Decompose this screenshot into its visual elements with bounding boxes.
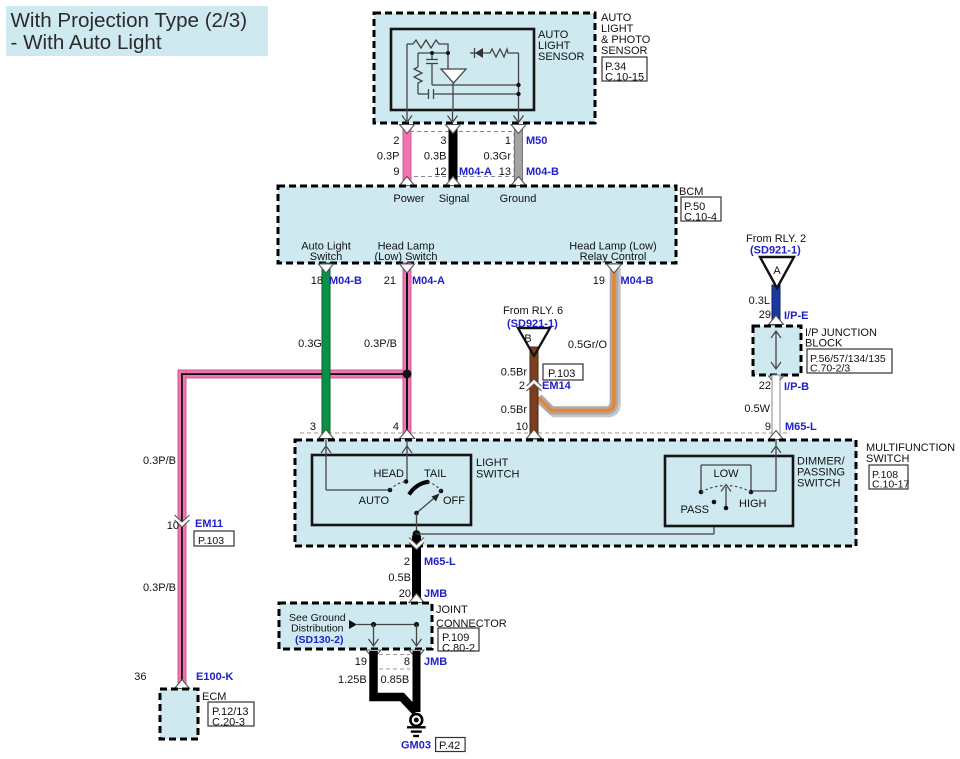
svg-text:SWITCH: SWITCH bbox=[866, 453, 909, 465]
svg-text:19: 19 bbox=[355, 656, 367, 668]
svg-text:- With Auto Light: - With Auto Light bbox=[11, 31, 162, 54]
svg-text:C.20-3: C.20-3 bbox=[212, 716, 245, 728]
svg-text:M04-B: M04-B bbox=[621, 275, 654, 287]
svg-text:HEAD: HEAD bbox=[373, 468, 404, 480]
svg-text:Distribution: Distribution bbox=[291, 623, 344, 635]
svg-text:C.80-2: C.80-2 bbox=[442, 642, 475, 654]
svg-text:B: B bbox=[524, 333, 531, 345]
svg-text:0.3P/B: 0.3P/B bbox=[143, 582, 176, 594]
svg-text:10: 10 bbox=[167, 520, 179, 532]
svg-text:BCM: BCM bbox=[679, 186, 703, 198]
svg-text:I/P-B: I/P-B bbox=[784, 381, 809, 393]
svg-text:0.3L: 0.3L bbox=[749, 295, 770, 307]
svg-text:HIGH: HIGH bbox=[739, 498, 767, 510]
svg-text:1.25B: 1.25B bbox=[338, 674, 367, 686]
svg-text:P.42: P.42 bbox=[439, 740, 460, 752]
svg-text:Ground: Ground bbox=[500, 193, 537, 205]
svg-text:M04-B: M04-B bbox=[329, 275, 362, 287]
svg-text:13: 13 bbox=[499, 166, 511, 178]
svg-text:SENSOR: SENSOR bbox=[601, 45, 648, 57]
svg-text:3: 3 bbox=[310, 421, 316, 433]
svg-text:E100-K: E100-K bbox=[196, 671, 233, 683]
svg-text:M04-A: M04-A bbox=[459, 166, 492, 178]
svg-text:C.10-4: C.10-4 bbox=[684, 211, 717, 223]
svg-text:M50: M50 bbox=[526, 135, 547, 147]
svg-text:JMB: JMB bbox=[424, 656, 447, 668]
svg-text:2: 2 bbox=[404, 556, 410, 568]
svg-text:From RLY. 6: From RLY. 6 bbox=[503, 305, 563, 317]
svg-text:0.3B: 0.3B bbox=[424, 151, 447, 163]
svg-text:LOW: LOW bbox=[713, 468, 739, 480]
svg-text:19: 19 bbox=[593, 275, 605, 287]
svg-text:3: 3 bbox=[440, 135, 446, 147]
svg-text:C.10-15: C.10-15 bbox=[605, 71, 644, 83]
svg-text:M65-L: M65-L bbox=[785, 421, 817, 433]
svg-text:I/P-E: I/P-E bbox=[784, 310, 808, 322]
svg-text:1: 1 bbox=[505, 135, 511, 147]
svg-text:0.85B: 0.85B bbox=[381, 674, 410, 686]
svg-text:SWITCH: SWITCH bbox=[476, 469, 519, 481]
svg-text:10: 10 bbox=[516, 421, 528, 433]
svg-text:9: 9 bbox=[765, 421, 771, 433]
svg-text:0.5B: 0.5B bbox=[388, 572, 411, 584]
svg-text:Signal: Signal bbox=[439, 193, 470, 205]
svg-text:0.3P/B: 0.3P/B bbox=[364, 338, 397, 350]
svg-text:9: 9 bbox=[393, 166, 399, 178]
svg-text:From RLY. 2: From RLY. 2 bbox=[746, 233, 806, 245]
svg-text:AUTO: AUTO bbox=[359, 495, 390, 507]
svg-text:C.10-17: C.10-17 bbox=[872, 479, 910, 491]
svg-text:0.5Br: 0.5Br bbox=[501, 367, 528, 379]
svg-text:22: 22 bbox=[759, 380, 771, 392]
svg-text:JMB: JMB bbox=[424, 588, 447, 600]
svg-text:Relay Control: Relay Control bbox=[580, 251, 647, 263]
svg-text:P.103: P.103 bbox=[198, 535, 224, 547]
svg-text:0.3Gr: 0.3Gr bbox=[483, 151, 511, 163]
svg-text:With Projection Type (2/3): With Projection Type (2/3) bbox=[11, 9, 248, 32]
svg-text:0.3G: 0.3G bbox=[298, 338, 322, 350]
svg-text:2: 2 bbox=[519, 380, 525, 392]
svg-text:SWITCH: SWITCH bbox=[797, 478, 840, 490]
svg-text:M65-L: M65-L bbox=[424, 556, 456, 568]
svg-text:GM03: GM03 bbox=[401, 740, 431, 752]
svg-text:0.5Br: 0.5Br bbox=[501, 404, 528, 416]
svg-text:M04-A: M04-A bbox=[412, 275, 445, 287]
svg-text:Power: Power bbox=[393, 193, 425, 205]
svg-text:BLOCK: BLOCK bbox=[805, 338, 843, 350]
svg-text:20: 20 bbox=[399, 588, 411, 600]
svg-text:0.3P: 0.3P bbox=[377, 151, 400, 163]
svg-text:EM11: EM11 bbox=[195, 518, 223, 530]
svg-text:18: 18 bbox=[311, 275, 323, 287]
svg-text:(SD921-1): (SD921-1) bbox=[507, 318, 558, 330]
svg-text:A: A bbox=[773, 265, 781, 277]
svg-text:(SD921-1): (SD921-1) bbox=[750, 245, 801, 257]
svg-text:EM14: EM14 bbox=[542, 380, 572, 392]
svg-text:8: 8 bbox=[404, 656, 410, 668]
svg-text:ECM: ECM bbox=[202, 691, 226, 703]
svg-text:29: 29 bbox=[759, 309, 771, 321]
svg-text:TAIL: TAIL bbox=[424, 468, 446, 480]
svg-text:PASS: PASS bbox=[680, 504, 709, 516]
svg-text:OFF: OFF bbox=[443, 495, 465, 507]
svg-text:P.103: P.103 bbox=[548, 368, 575, 380]
svg-text:SENSOR: SENSOR bbox=[538, 51, 585, 63]
svg-text:C.70-2/3: C.70-2/3 bbox=[810, 363, 850, 375]
svg-text:21: 21 bbox=[384, 275, 396, 287]
svg-text:4: 4 bbox=[393, 421, 399, 433]
svg-text:JOINT: JOINT bbox=[436, 604, 468, 616]
svg-text:2: 2 bbox=[393, 135, 399, 147]
svg-text:(SD130-2): (SD130-2) bbox=[295, 634, 343, 646]
svg-text:12: 12 bbox=[434, 166, 446, 178]
svg-text:Switch: Switch bbox=[310, 251, 342, 263]
svg-text:(Low) Switch: (Low) Switch bbox=[375, 251, 438, 263]
svg-text:M04-B: M04-B bbox=[526, 166, 559, 178]
svg-text:0.5Gr/O: 0.5Gr/O bbox=[568, 339, 608, 351]
svg-text:0.3P/B: 0.3P/B bbox=[143, 455, 176, 467]
svg-text:36: 36 bbox=[134, 671, 146, 683]
svg-text:LIGHT: LIGHT bbox=[476, 457, 509, 469]
svg-text:0.5W: 0.5W bbox=[744, 403, 770, 415]
